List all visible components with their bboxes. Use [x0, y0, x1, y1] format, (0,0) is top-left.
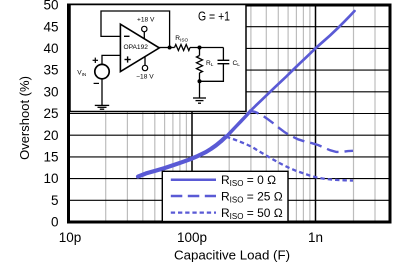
wire feedback loop	[101, 11, 170, 48]
svg-text:100p: 100p	[177, 230, 207, 245]
wire CL down	[222, 48, 224, 61]
wire RISO to node B and CL	[190, 47, 223, 49]
svg-text:30: 30	[43, 84, 58, 99]
svg-text:15: 15	[43, 150, 58, 165]
wire op-amp output to node A	[159, 47, 174, 49]
svg-text:35: 35	[43, 63, 58, 78]
legend short dash sample	[171, 211, 216, 213]
svg-text:Capacitive Load (F): Capacitive Load (F)	[174, 248, 290, 263]
major vertical gridlines 100p and 1n (black)	[192, 5, 316, 222]
capacitor CL	[218, 60, 230, 63]
wire CL bottom	[200, 64, 224, 82]
curve RISO=0 solid (trunk thick where overlapped)	[138, 137, 226, 177]
curve RISO=0 solid upper	[226, 11, 355, 137]
+18V supply terminal circle	[142, 26, 147, 31]
svg-text:RISO = 0 Ω: RISO = 0 Ω	[221, 173, 276, 188]
bottom node junction dot	[198, 79, 202, 83]
op-amp U1 OPA192	[120, 24, 159, 71]
+18V supply pin wire	[143, 32, 145, 39]
ground (RL/CL)	[193, 98, 206, 103]
plot border frame	[69, 5, 391, 222]
wire RL to bottom node	[199, 73, 201, 81]
svg-text:10: 10	[43, 171, 58, 186]
curve overlap solid+25ohm segment	[226, 112, 250, 138]
curve RISO=25 long dash	[249, 111, 353, 152]
legend solid line sample	[171, 179, 216, 182]
minor vertical gridlines (gray)	[106, 5, 375, 222]
svg-text:G = +1: G = +1	[198, 8, 230, 23]
svg-text:0: 0	[51, 215, 59, 230]
wire node B down to RL	[199, 48, 201, 56]
svg-text:20: 20	[43, 128, 58, 143]
resistor RL	[197, 56, 203, 73]
svg-text:50: 50	[43, 0, 58, 13]
op-amp minus sign	[124, 35, 130, 37]
svg-text:Overshoot (%): Overshoot (%)	[17, 76, 32, 160]
wire noninverting input	[102, 55, 120, 64]
-18V supply pin wire	[144, 57, 146, 65]
svg-text:OPA192: OPA192	[124, 44, 149, 51]
svg-text:25: 25	[43, 106, 58, 121]
x tick label 10p	[59, 230, 323, 245]
svg-text:−18 V: −18 V	[136, 73, 154, 80]
svg-text:10p: 10p	[59, 230, 82, 245]
schematic inset box	[70, 5, 246, 112]
curve RISO=50 short dash	[226, 137, 353, 181]
svg-text:1n: 1n	[308, 230, 323, 245]
source VIN circle	[95, 64, 109, 78]
svg-text:40: 40	[43, 41, 58, 56]
y tick label 50	[43, 0, 58, 230]
svg-text:45: 45	[43, 19, 58, 34]
svg-text:+18 V: +18 V	[137, 17, 155, 24]
ground (VIN)	[95, 105, 109, 109]
VIN plus sign	[93, 58, 98, 63]
node A junction dot	[168, 46, 172, 50]
resistor RISO	[175, 45, 191, 51]
wire VIN to ground	[101, 79, 103, 106]
legend long dash sample	[171, 195, 216, 198]
VIN minus sign	[94, 82, 99, 84]
node B junction dot	[198, 46, 202, 50]
svg-text:5: 5	[51, 193, 59, 208]
legend box	[162, 171, 288, 221]
-18V supply terminal circle	[142, 65, 147, 70]
wire bottom node to ground	[199, 81, 201, 98]
op-amp plus sign	[125, 56, 131, 62]
horizontal gridlines (black, every 5%)	[69, 27, 391, 201]
